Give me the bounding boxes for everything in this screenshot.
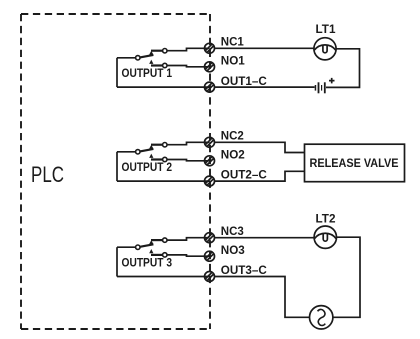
relay OUTPUT 2 : NO stub wire [151,158,163,160]
relay OUTPUT 1 : NC contact circle [163,49,167,53]
lamp LT1 [314,38,336,60]
terminal NC2 [205,137,215,147]
terminal OUT3-C [205,272,215,282]
relay OUTPUT 1 : NC arrow [149,51,153,55]
relay OUTPUT 3 : pole circle [136,245,140,249]
wire NC1 to lamp LT1 [215,47,315,49]
relay OUTPUT 1 : pole circle [136,56,140,60]
AC source [310,306,333,329]
wire NC contact to NC2 terminal [167,142,210,144]
svg-text:OUTPUT 2: OUTPUT 2 [122,162,173,174]
svg-text:NC2: NC2 [221,131,244,143]
relay OUTPUT 1 : left vertical wire [116,58,118,87]
wire OUT1-C to battery [215,86,315,88]
battery plus sign [329,78,335,84]
wire NO contact to NO1 terminal [167,66,210,67]
wire NC3 to lamp LT2 [215,237,315,239]
svg-text:LT2: LT2 [316,214,336,226]
relay OUTPUT 1 : common bottom wire to OUT1-C [117,86,210,88]
wire NO contact to NO2 terminal [167,160,210,161]
relay OUTPUT 3 : blade [140,244,154,247]
svg-text:PLC: PLC [31,162,64,187]
svg-text:NC3: NC3 [221,226,244,238]
relay OUTPUT 1 : blade [140,55,154,58]
relay OUTPUT 3 : left vertical wire [116,247,118,276]
relay OUTPUT 2 : NC contact circle [163,143,167,147]
release valve box [305,144,405,182]
svg-text:NO1: NO1 [221,56,246,68]
wire NC contact to NC3 terminal [167,238,210,240]
terminal OUT2-C [205,176,215,186]
relay OUTPUT 2 : left vertical wire [116,152,118,181]
relay OUTPUT 3 : NC contact circle [163,238,167,242]
relay OUTPUT 3 : NO stub wire [151,254,163,256]
terminal NO2 [205,156,215,166]
relay OUTPUT 3 : common bottom wire to OUT3-C [117,276,210,278]
svg-text:OUT3–C: OUT3–C [221,265,267,277]
relay OUTPUT 3 : NC stub wire [151,239,163,241]
relay OUTPUT 1 : NC stub wire [151,50,163,52]
relay OUTPUT 2 : pole circle [136,150,140,154]
relay OUTPUT 2 : NO arrow [149,154,153,158]
svg-text:LT1: LT1 [316,24,337,36]
lamp LT2 filament [315,233,337,238]
relay OUTPUT 3 : NC arrow [149,240,153,244]
relay OUTPUT 3 : NO arrow [149,249,153,253]
lamp LT2 [314,226,336,248]
svg-text:NC1: NC1 [221,37,245,49]
svg-text:RELEASE VALVE: RELEASE VALVE [310,158,399,170]
wire LT1 to right corner [326,49,360,88]
svg-text:OUT2–C: OUT2–C [221,170,267,182]
relay OUTPUT 2 : pole wire [117,151,136,153]
wire OUT3-C down to AC source [215,277,310,318]
wire OUT2-C to release valve [215,171,305,181]
svg-text:NO3: NO3 [221,245,245,257]
svg-text:NO2: NO2 [221,150,245,162]
lamp LT1 filament [314,45,336,50]
terminal NO3 [205,251,215,261]
wire NO contact to NO3 terminal [167,255,210,256]
relay OUTPUT 1 : NO arrow [149,60,153,64]
wire NC2 to release valve [215,142,305,152]
terminal NC3 [205,233,215,243]
relay OUTPUT 1 : NO stub wire [151,64,163,66]
relay OUTPUT 3 : pole wire [117,246,136,248]
relay OUTPUT 1 : pole wire [117,57,136,59]
terminal OUT1-C [205,82,215,92]
relay OUTPUT 2 : common bottom wire to OUT2-C [117,180,210,182]
relay OUTPUT 2 : NC stub wire [151,144,163,146]
svg-text:OUTPUT 3: OUTPUT 3 [122,257,173,269]
relay OUTPUT 2 : blade [140,149,154,152]
battery B1 [315,82,326,93]
AC source sine squiggle [318,309,326,325]
PLC dashed enclosure [21,14,210,329]
terminal NO1 [205,62,215,72]
relay OUTPUT 1 : NO contact circle [163,63,167,67]
relay OUTPUT 2 : NO contact circle [163,157,167,161]
relay OUTPUT 3 : NO contact circle [163,253,167,257]
svg-text:OUTPUT 1: OUTPUT 1 [122,68,173,80]
wire NC contact to NC1 terminal [167,48,210,50]
wire LT2 right to AC source [333,237,360,317]
terminal NC1 [205,43,215,53]
svg-text:OUT1–C: OUT1–C [221,76,267,88]
relay OUTPUT 2 : NC arrow [149,145,153,149]
